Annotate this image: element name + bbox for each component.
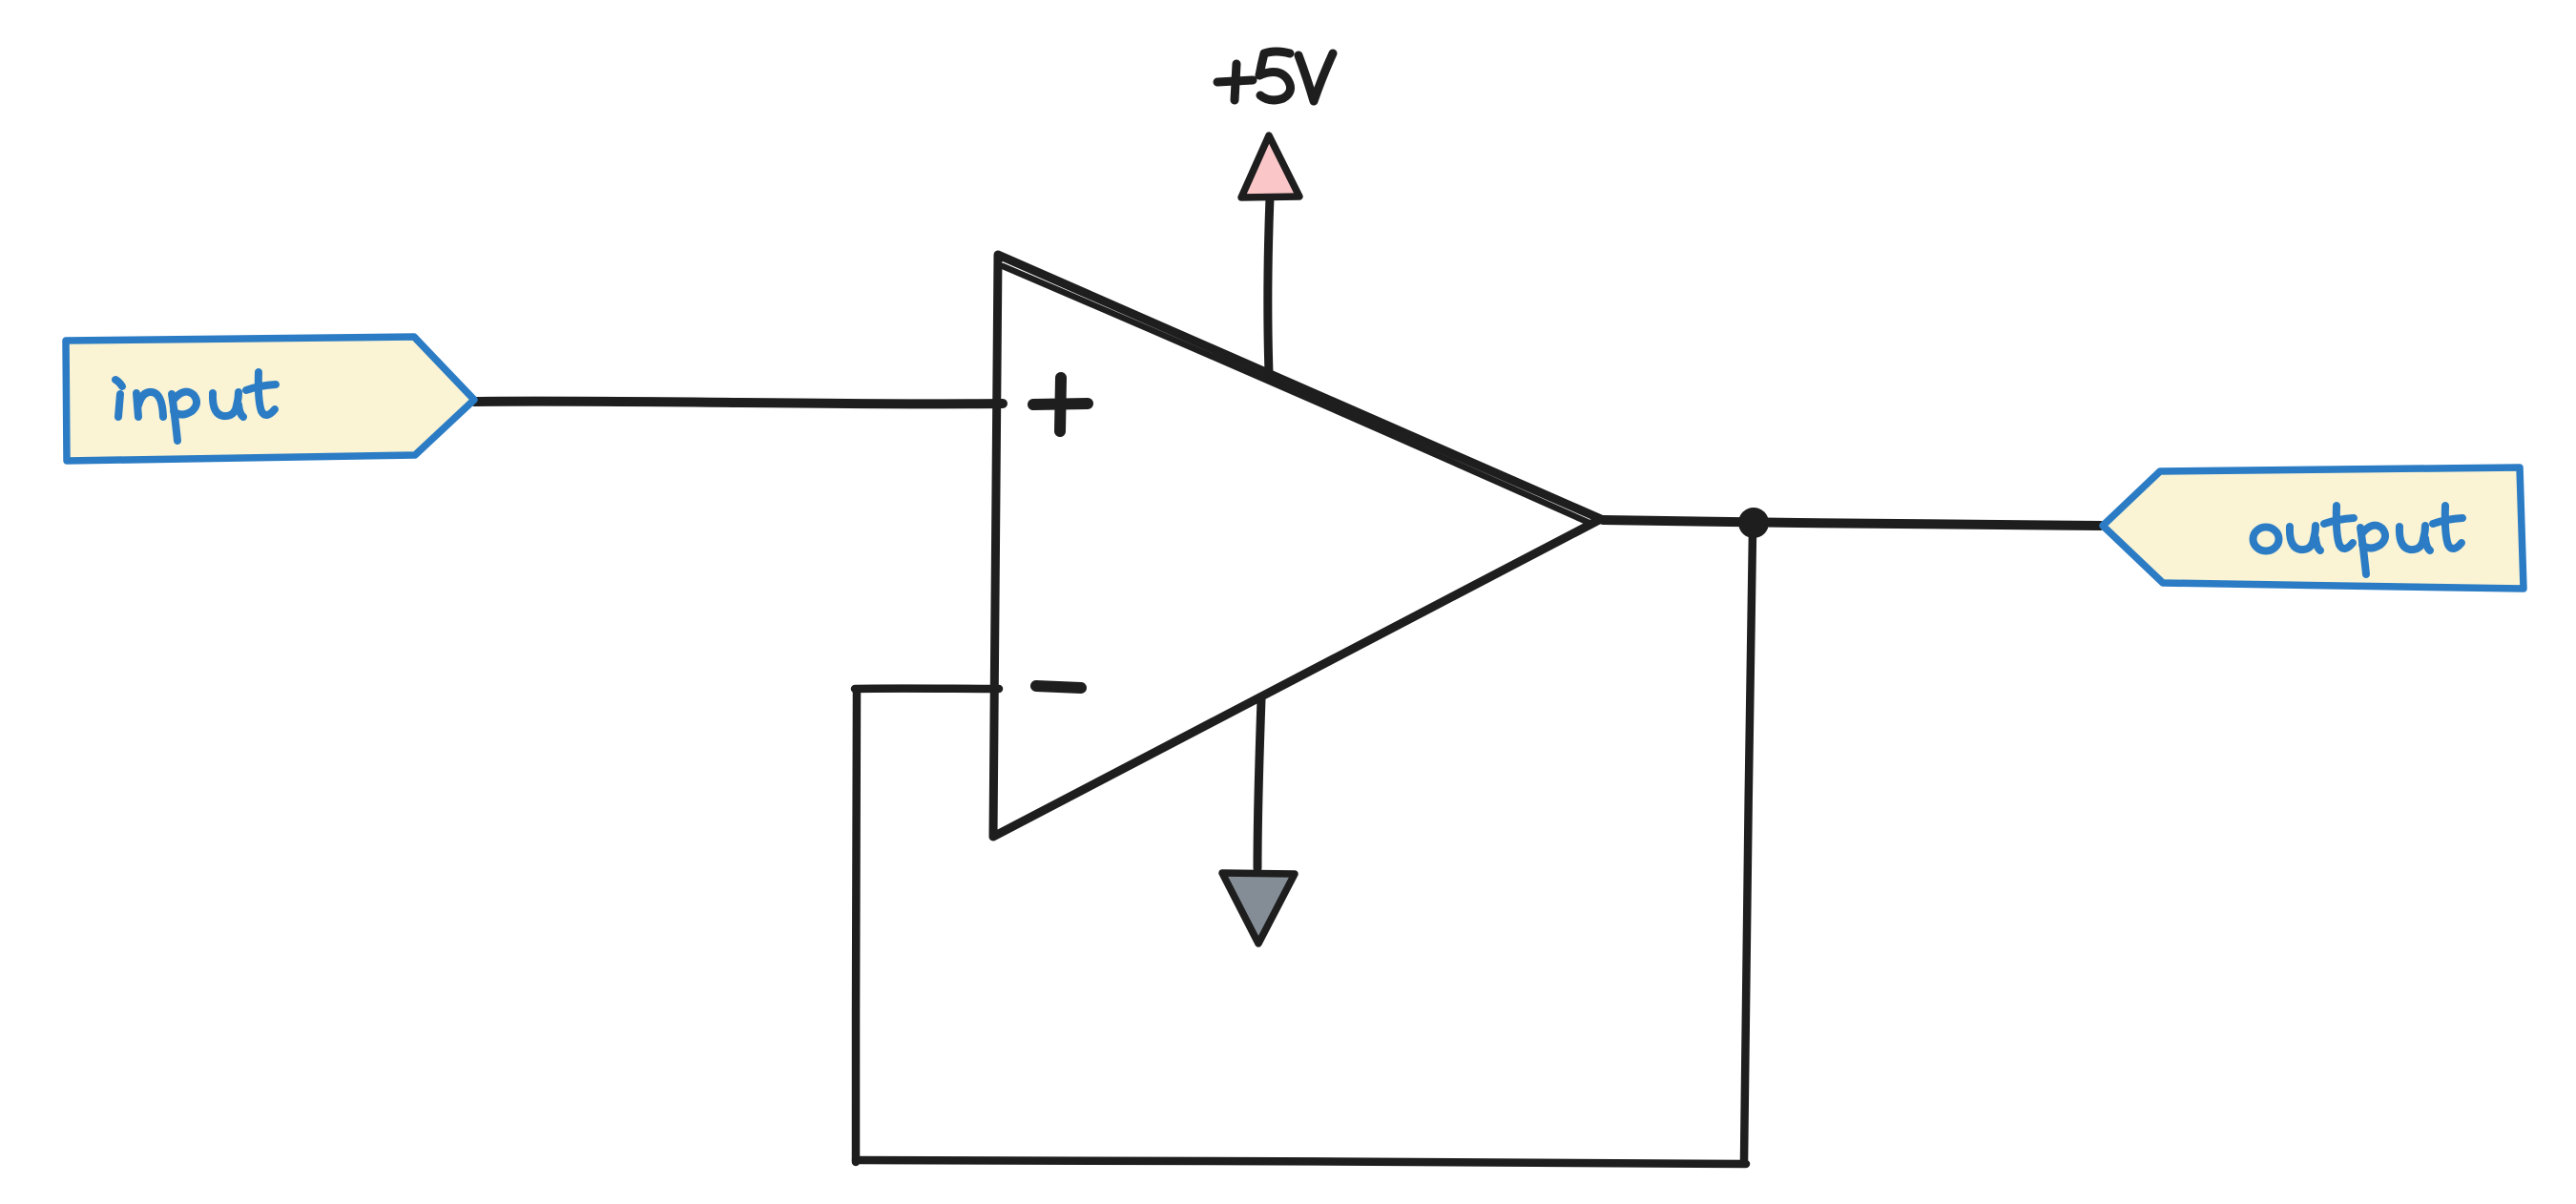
label +5V <box>1217 52 1333 101</box>
wire: +5V rail to op-amp V+ <box>1268 197 1270 373</box>
wire: feedback vertical left <box>856 690 857 1162</box>
power symbol +5V (triangle) <box>1241 135 1299 197</box>
wire: op-amp output <box>1603 520 2101 526</box>
op-amp U1 <box>993 255 1601 837</box>
wire: op-amp V- to ground <box>1257 699 1261 868</box>
ground <box>1222 873 1295 944</box>
node label: input flag <box>66 337 474 461</box>
wire: feedback to inverting input <box>855 684 999 693</box>
wire: feedback bottom horizontal <box>856 1160 1746 1164</box>
op-amp plus pin marking <box>1033 378 1088 431</box>
wire: feedback vertical right <box>1744 530 1753 1161</box>
junction node on output <box>1738 508 1769 538</box>
node label: output flag <box>2103 467 2524 589</box>
op-amp minus pin marking <box>1036 686 1081 688</box>
wire: input to op-amp non-inverting input <box>474 402 1003 405</box>
